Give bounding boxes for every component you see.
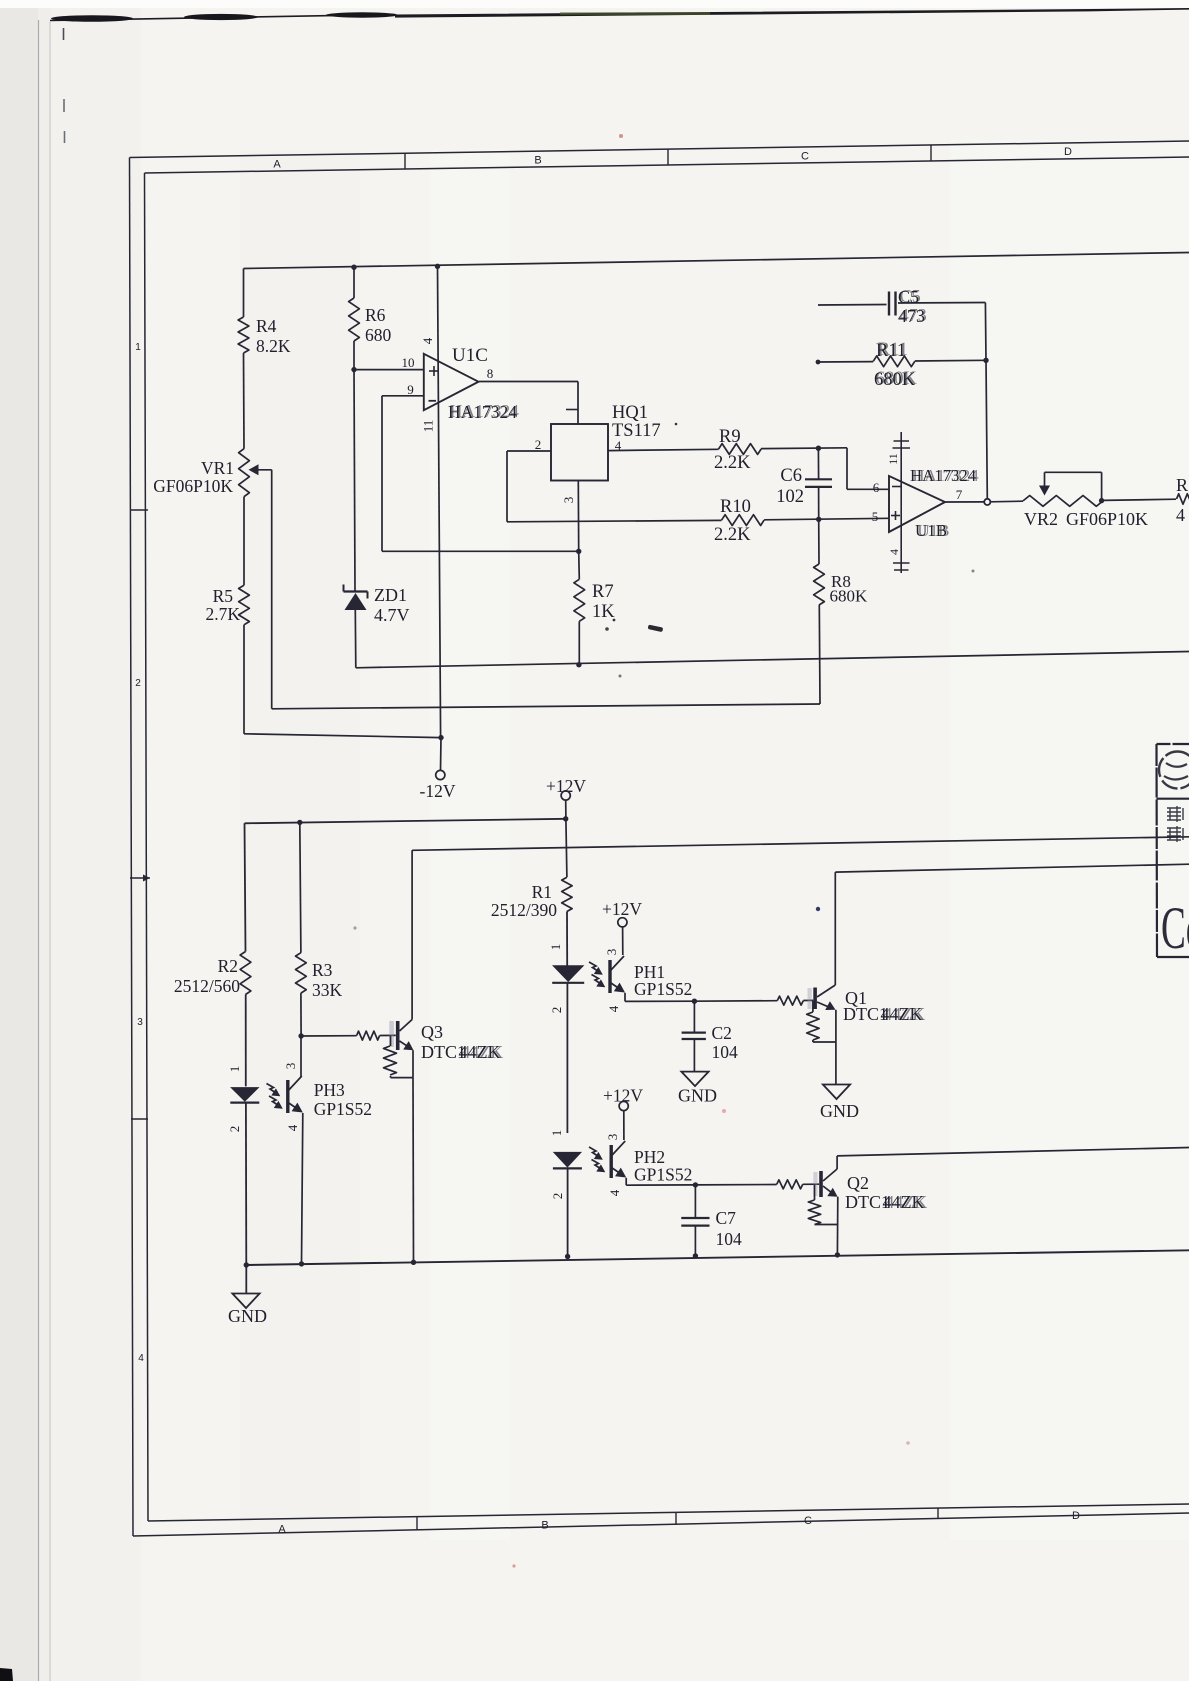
wire: lower rail of top circuit — [356, 652, 1189, 668]
svg-text:HQ1: HQ1 — [612, 403, 648, 423]
node: junction R3 branch — [297, 820, 302, 825]
wire: Q1 collector up, rail to right — [835, 864, 1189, 985]
node: junction -12V — [438, 735, 443, 740]
node: rail junction PH3 — [299, 1261, 304, 1266]
label C7 104 — [716, 1208, 743, 1249]
svg-text:104: 104 — [712, 1042, 739, 1062]
svg-text:R7: R7 — [592, 582, 614, 602]
node: junction C7 — [693, 1182, 698, 1187]
top scanner smear marks — [50, 8, 1189, 22]
node: junction R6 on top rail — [351, 265, 356, 270]
light arrows PH1 — [589, 962, 600, 973]
resistor R4 — [238, 317, 249, 353]
transistor Q2 DTC144ZK — [813, 1172, 817, 1196]
bottom-left corner scan blob — [0, 1668, 13, 1681]
svg-text:R4: R4 — [256, 316, 277, 336]
wire: VR2 to edge resistor — [1103, 499, 1176, 500]
svg-text:2: 2 — [549, 1007, 564, 1014]
node: output junction circle — [984, 499, 990, 505]
label PH2 GP1S52 — [634, 1147, 692, 1185]
svg-text:PH3: PH3 — [314, 1080, 345, 1100]
node: VR2 wiper junction — [1099, 498, 1104, 503]
node: junction +12V feed — [563, 816, 568, 821]
svg-text:2: 2 — [535, 437, 542, 452]
svg-text:4: 4 — [138, 1353, 144, 1364]
wire: Q2 emitter down to ground rail — [836, 1197, 838, 1255]
svg-text:B: B — [534, 155, 541, 167]
svg-text:44ZK: 44ZK — [461, 1042, 503, 1062]
resistor R8 — [814, 519, 825, 704]
svg-text:GP1S52: GP1S52 — [634, 1165, 692, 1185]
resistor (cut off at right edge) — [1177, 494, 1189, 504]
svg-text:10: 10 — [402, 355, 415, 370]
resistor R5 — [239, 585, 250, 625]
svg-text:U1B: U1B — [917, 521, 949, 540]
svg-text:4: 4 — [1176, 505, 1185, 525]
node: junction R11 left — [816, 360, 821, 365]
resistor R11 — [818, 356, 986, 367]
node: junction R10 / C6 — [816, 517, 821, 522]
svg-text:3: 3 — [561, 497, 576, 504]
zener diode ZD1 — [344, 370, 368, 668]
paper left edge lines — [39, 20, 51, 1681]
wire: U1B output pin 7 — [945, 501, 984, 503]
label HQ1 TS117 — [612, 403, 677, 441]
small edge dashes — [64, 28, 65, 143]
wire: to Q1 base — [803, 999, 813, 1001]
node: rail junction LED chain — [565, 1254, 570, 1259]
power terminal -12V — [420, 738, 456, 801]
potentiometer VR2 — [1023, 472, 1103, 506]
wire: R10 to U1B pin 5 — [764, 518, 889, 520]
node: junction R3 / Q3 base wire — [298, 1033, 303, 1038]
svg-text:3: 3 — [605, 1134, 620, 1141]
svg-text:1: 1 — [548, 944, 563, 951]
svg-text:R3: R3 — [312, 960, 333, 980]
transistor Q3 DTC144ZK — [389, 1021, 394, 1047]
wire: Q2 collector up, rail to right — [837, 1148, 1189, 1170]
svg-text:4.7V: 4.7V — [374, 605, 410, 625]
base resistor of Q1 — [777, 996, 803, 1005]
node: R6 bottom / U1C + input — [351, 367, 356, 372]
wire: base resistor to Q3 — [380, 1034, 396, 1036]
wire: Q3 collector up and long rail right — [412, 837, 1189, 1020]
label C6 102 — [776, 466, 804, 507]
svg-text:C7: C7 — [716, 1208, 737, 1228]
wire: to Q2 base — [803, 1183, 819, 1185]
base resistor of Q3 — [357, 1031, 380, 1040]
resistor R6 — [349, 267, 360, 369]
wire: R3 to PH3 collector — [300, 993, 302, 1036]
capacitor C2 — [682, 1001, 706, 1071]
power terminal +12V PH2 — [603, 1086, 643, 1141]
svg-text:C2: C2 — [712, 1023, 732, 1043]
svg-text:473: 473 — [900, 305, 927, 325]
svg-text:+12V: +12V — [603, 1086, 643, 1106]
base resistor of Q2 — [777, 1180, 803, 1189]
svg-text:Q2: Q2 — [847, 1173, 869, 1193]
node: rail junction R2/GND — [244, 1262, 249, 1267]
svg-text:4: 4 — [887, 549, 901, 555]
svg-text:R2: R2 — [218, 956, 238, 976]
internal resistor of Q1 — [807, 1001, 836, 1043]
label R1 2512/390 — [491, 882, 557, 920]
potentiometer VR1 — [239, 449, 272, 497]
svg-text:2.2K: 2.2K — [714, 453, 751, 473]
svg-text:8: 8 — [487, 366, 494, 381]
light arrows PH3 — [267, 1084, 278, 1095]
svg-text:2: 2 — [550, 1193, 565, 1200]
label R2 2512/560 — [174, 956, 240, 996]
resistor R10 — [722, 515, 765, 526]
label VR2 GF06P10K — [1024, 509, 1148, 529]
frame ticks bottom — [417, 1508, 938, 1530]
transistor Q1 DTC144ZK — [808, 988, 812, 1009]
svg-text:2: 2 — [135, 678, 141, 689]
label R8 680K — [830, 572, 869, 606]
svg-text:2.2K: 2.2K — [714, 525, 751, 545]
wire: U1C inverting input pin 9 — [382, 396, 579, 552]
label R11 680K — [874, 340, 918, 390]
resistor R3 — [296, 953, 307, 993]
wire: to Q2 base resistor — [695, 1184, 776, 1186]
node: rail junction Q2 emitter — [835, 1252, 840, 1257]
svg-text:D: D — [1072, 1510, 1080, 1522]
svg-text:HA17324: HA17324 — [450, 401, 519, 421]
wire: PH2 emitter to base line — [626, 1178, 695, 1185]
company logo emblem — [1159, 752, 1189, 789]
label DTC144ZK (Q3) — [421, 1042, 503, 1062]
frame zone letters top: A B C D — [273, 146, 1072, 171]
label DTC144ZK (Q2) — [845, 1192, 927, 1212]
wire: bottom section top rail — [245, 819, 566, 824]
capacitor C6 — [805, 448, 832, 519]
internal resistor of Q2 — [808, 1184, 838, 1224]
stray specks — [353, 134, 974, 1568]
wire: Q1 emitter down to GND — [835, 1010, 837, 1085]
svg-text:3: 3 — [604, 949, 619, 956]
svg-text:4: 4 — [420, 337, 435, 344]
power terminal +12V PH1 — [602, 899, 642, 955]
ground symbol (C2) — [678, 1072, 717, 1106]
wire: HQ1 pin2 line to R10 — [507, 520, 722, 521]
wire: R5 bottom to -12V node — [244, 625, 441, 738]
svg-text:VR1: VR1 — [201, 458, 234, 478]
svg-text:680K: 680K — [830, 587, 869, 606]
wire: HQ1 pin 2 loop to R10 line — [507, 451, 551, 522]
internal resistor of Q3 — [384, 1036, 414, 1078]
svg-text:2512/560: 2512/560 — [174, 976, 240, 996]
node: junction R7 bottom on lower rail — [576, 662, 581, 667]
node: rail junction Q3 emitter — [411, 1260, 416, 1265]
wire: right feedback vertical to U1B output — [986, 360, 987, 498]
svg-text:680K: 680K — [876, 369, 918, 389]
wire: VR1 to R5 — [243, 497, 245, 586]
opto-isolator HQ1 TS117 — [551, 424, 608, 481]
svg-text:1: 1 — [135, 342, 141, 353]
node: junction U1C power line on top rail — [435, 264, 440, 269]
capacitor C7 — [681, 1185, 709, 1256]
svg-text:R9: R9 — [719, 427, 741, 447]
wire: R9 to U1B pin 6 with step — [761, 448, 889, 490]
svg-text:3: 3 — [283, 1063, 298, 1070]
frame zone numbers left: 1 2 3 4 — [135, 342, 144, 1364]
svg-text:R6: R6 — [365, 305, 386, 325]
phototransistor PH1 — [610, 956, 625, 993]
svg-text:102: 102 — [776, 487, 804, 507]
label R6 value — [365, 305, 392, 345]
svg-text:5: 5 — [872, 509, 879, 524]
svg-text:C: C — [804, 1515, 812, 1527]
svg-text:1: 1 — [549, 1130, 564, 1137]
label R9 value — [714, 427, 751, 473]
wire: U1C output pin 8 down to HQ1 — [479, 382, 578, 425]
svg-text:GND: GND — [678, 1086, 717, 1106]
svg-text:C5: C5 — [900, 286, 921, 306]
wire: top supply rail — [244, 253, 1189, 269]
svg-text:R: R — [1176, 475, 1188, 495]
wire: HQ1 pin 4 to R9 — [608, 449, 719, 450]
wire: Q3 base wire — [301, 1035, 357, 1037]
svg-text:104: 104 — [716, 1229, 743, 1249]
svg-text:R5: R5 — [213, 586, 234, 606]
wire: bottom ground rail — [246, 1250, 1189, 1265]
svg-text:6: 6 — [873, 480, 880, 495]
frame zone letters bottom: A B C D — [278, 1510, 1080, 1536]
frame ticks left — [130, 510, 150, 1119]
ground symbol (Q1) — [820, 1085, 859, 1122]
LED of PH2 — [553, 1152, 582, 1256]
label R7 value — [592, 582, 615, 622]
svg-text:GND: GND — [820, 1101, 859, 1121]
svg-text:GP1S52: GP1S52 — [634, 979, 692, 999]
LED of PH3 — [230, 995, 259, 1266]
svg-text:-12V: -12V — [420, 781, 456, 801]
svg-text:4: 4 — [606, 1005, 621, 1012]
wire: U1C power line (pins 4/11) from top rail to -12V — [438, 266, 441, 737]
label C2 104 — [712, 1023, 739, 1062]
wire: to U1C non-inverting input pin 10 — [354, 369, 424, 371]
label PH1 GP1S52 — [634, 962, 692, 999]
svg-text:11: 11 — [886, 453, 900, 465]
svg-text:Co: Co — [1161, 895, 1189, 961]
svg-text:R11: R11 — [878, 340, 908, 360]
svg-text:4: 4 — [607, 1189, 622, 1196]
wire: HQ1 pin 3 down — [577, 481, 579, 552]
node: junction C2 — [692, 999, 697, 1004]
svg-text:33K: 33K — [312, 980, 343, 1000]
resistor R7 — [574, 551, 585, 664]
svg-text:44ZK: 44ZK — [885, 1192, 927, 1212]
label VR1 GF06P10K — [153, 458, 234, 496]
svg-text:7: 7 — [956, 487, 963, 502]
svg-text:11: 11 — [421, 420, 436, 433]
power terminal +12V main — [546, 776, 586, 819]
wire: output to VR2 — [991, 500, 1024, 503]
svg-text:Q3: Q3 — [421, 1022, 443, 1042]
svg-text:3: 3 — [137, 1017, 143, 1028]
svg-text:GP1S52: GP1S52 — [314, 1099, 372, 1119]
svg-text:2512/390: 2512/390 — [491, 900, 557, 920]
phototransistor PH2 — [611, 1141, 626, 1178]
node: junction R9 / C6 — [816, 446, 821, 451]
svg-text:1K: 1K — [592, 602, 615, 622]
LED of PH1 — [552, 912, 584, 1134]
node: junction R11/C5 right — [983, 358, 988, 363]
svg-text:C: C — [801, 151, 809, 163]
wire: PH1 emitter to base line — [625, 993, 694, 1002]
svg-text:2: 2 — [227, 1126, 242, 1133]
svg-text:HA17324: HA17324 — [912, 466, 979, 485]
svg-text:1: 1 — [227, 1066, 242, 1073]
wire: R3 branch vertical — [300, 822, 301, 952]
svg-text:680: 680 — [365, 325, 392, 345]
svg-text:R10: R10 — [720, 497, 751, 517]
svg-text:B: B — [541, 1520, 548, 1532]
pin 1 tick on HQ1 top (rotated) — [566, 409, 578, 411]
svg-text:+12V: +12V — [602, 899, 642, 919]
svg-text:GF06P10K: GF06P10K — [1066, 509, 1148, 529]
title block box (cut at right edge) — [1157, 744, 1189, 957]
wire: Q3 emitter down to ground rail — [412, 1050, 415, 1262]
phototransistor PH3 — [288, 1036, 303, 1264]
svg-text:R1: R1 — [532, 882, 552, 902]
svg-text:ZD1: ZD1 — [374, 585, 407, 605]
light arrows PH2 — [589, 1147, 600, 1158]
resistor R1 — [562, 819, 572, 912]
wire: left branch from top rail down to R4 — [243, 269, 245, 318]
op-amp U1C — [424, 354, 479, 410]
capacitor C5 — [818, 292, 986, 361]
wire: R4 to VR1 — [243, 353, 246, 449]
svg-text:VR2: VR2 — [1024, 509, 1058, 529]
svg-text:D: D — [1064, 146, 1072, 158]
svg-text:9: 9 — [407, 382, 414, 397]
svg-text:4: 4 — [285, 1124, 300, 1131]
node: junction pin9 wire / R7 — [576, 549, 581, 554]
label R5 value — [205, 586, 240, 624]
wire: to Q1 base resistor — [694, 1000, 777, 1003]
drawing border frame — [130, 141, 1189, 1536]
svg-text:2.7K: 2.7K — [205, 604, 240, 624]
svg-text:U1C: U1C — [452, 345, 488, 366]
label R10 value — [714, 497, 751, 545]
vertical company name glyphs — [1167, 806, 1183, 842]
frame ticks top — [405, 145, 931, 169]
svg-text:44ZK: 44ZK — [883, 1004, 925, 1024]
label PH3 GP1S52 — [314, 1080, 372, 1119]
svg-text:A: A — [278, 1524, 286, 1536]
resistor R9 — [719, 444, 762, 455]
svg-text:GND: GND — [228, 1306, 267, 1326]
label R4 value — [256, 316, 291, 356]
U1B power line pins 11/4 (rotated marks) — [886, 432, 910, 573]
label DTC144ZK (Q1) — [843, 1004, 925, 1024]
label ZD1 4.7V — [374, 585, 410, 625]
svg-text:A: A — [273, 159, 281, 171]
label C5 473 — [898, 286, 927, 326]
svg-text:C6: C6 — [780, 466, 802, 486]
svg-text:GF06P10K: GF06P10K — [153, 476, 233, 496]
wire: R2 branch vertical — [245, 823, 246, 951]
wire: VR1 wiper down and right to R8 bottom — [272, 470, 820, 709]
node: rail junction C7 — [693, 1253, 698, 1258]
svg-text:8.2K: 8.2K — [256, 336, 291, 356]
ground symbol (main rail) — [228, 1265, 267, 1326]
svg-text:+12V: +12V — [546, 776, 586, 796]
resistor R2 — [240, 952, 251, 995]
label R3 33K — [312, 960, 343, 1000]
op-amp U1B — [889, 476, 945, 532]
label R? (cut) — [1176, 475, 1188, 525]
